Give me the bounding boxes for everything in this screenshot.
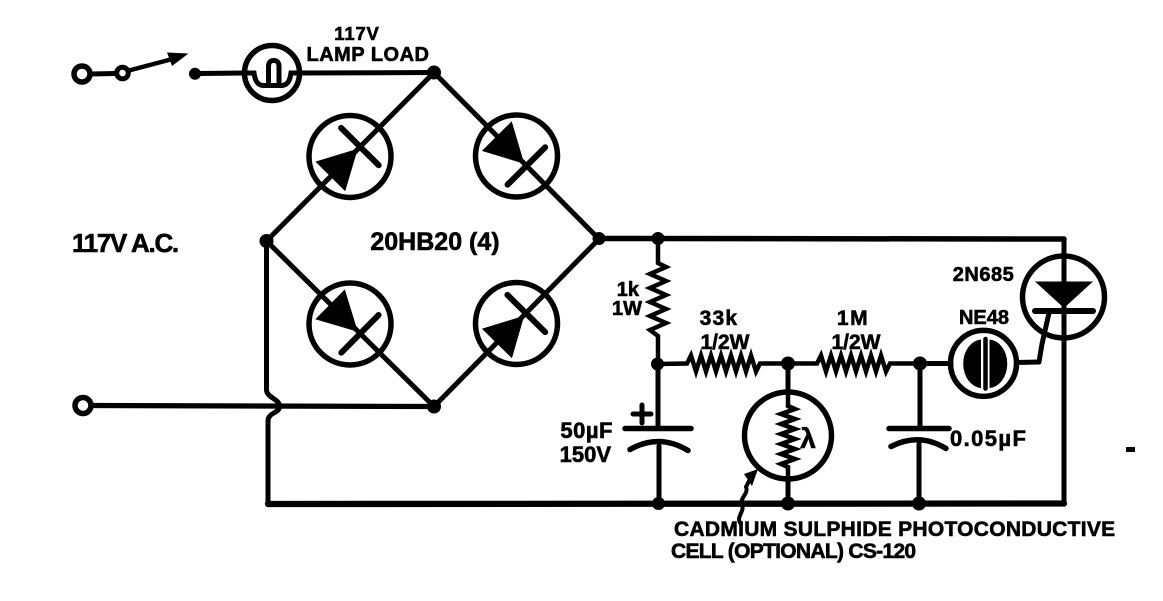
neon lamp electrodes [963,340,1007,389]
node C2 bottom [912,497,926,511]
SCR cathode bar [1035,308,1093,314]
svg-text:20HB20 (4): 20HB20 (4) [370,228,499,256]
svg-text:2N685: 2N685 [953,264,1014,286]
wire left node down with hop over [267,241,280,504]
bridge diagonal wire bottom-left [267,241,435,407]
photocell callout arrow [739,479,750,524]
node left of bridge [260,234,274,248]
wire [199,71,245,77]
svg-text:1W: 1W [612,298,642,320]
bridge diagonal wire top-left [267,73,435,242]
photocell circle [745,392,832,479]
node 1M right [913,357,927,371]
svg-text:CADMIUM SULPHIDE PHOTOCONDUCTI: CADMIUM SULPHIDE PHOTOCONDUCTIVE [674,518,1115,541]
diode D2 (upper-right) circle [476,115,558,197]
SCR triangle [1035,282,1093,309]
capacitor C1 top plate [625,426,691,432]
bridge diagonal wire bottom-right [434,239,599,407]
terminal T2 (lower AC input) [75,398,91,414]
wire C2 to bottom rail [917,444,922,504]
svg-text:50µF: 50µF [560,418,613,443]
svg-text:CELL (OPTIONAL) CS-120: CELL (OPTIONAL) CS-120 [671,540,915,563]
diode D1 (upper-left) circle [309,116,391,198]
switch S1 arm [129,57,180,71]
wire 1M right down to C2 [918,364,923,427]
svg-text:33k: 33k [700,307,739,330]
switch pole contact [117,67,129,79]
node top of bridge [427,66,441,80]
diode D3 cathode bar [341,315,378,353]
SCR Q1 circle [1023,256,1105,338]
wire C1 to bottom rail [657,446,662,504]
photocell callout arrowhead [744,469,758,486]
wire photocell to bottom rail [786,478,791,504]
wire lower AC to bridge bottom [92,406,434,407]
switch throw dot [189,68,201,80]
wire [91,71,115,77]
diode D2 triangle [482,121,524,164]
diode D4 cathode bar [507,295,545,332]
right vertical wire [1062,239,1067,504]
svg-text:NE48: NE48 [959,307,1009,329]
bridge diagonal wire top-right [434,73,599,240]
wire to photocell [786,364,791,395]
svg-text:150V: 150V [560,442,612,467]
node junction 1k top [652,232,665,245]
capacitor C1 curved plate [630,441,688,450]
capacitor C1 50uF plus sign [633,405,651,423]
wire NE48 to gate [1017,360,1040,366]
node 33k right / photocell top [781,357,795,371]
lamp LOAD circle [245,46,300,101]
lamp filament loop [269,61,280,84]
lamp filament cradle [245,73,299,86]
diode D2 cathode bar [508,147,546,184]
wire lamp to bridge top [300,70,434,76]
node bottom of bridge [427,400,441,414]
resistor R2 33k 1/2W [658,356,789,372]
node C1 bottom [652,497,665,510]
resistor R3 1M 1/2W [788,356,920,372]
neon lamp NE48 circle [951,330,1017,396]
svg-text:0.05µF: 0.05µF [950,426,1027,451]
svg-text:1M: 1M [837,307,869,330]
diode D1 triangle [315,149,357,192]
diode D1 cathode bar [341,128,379,165]
capacitor C2 0.05uF top plate [889,426,949,432]
capacitor C2 curved plate [891,440,946,449]
photocell internal resistor [781,394,795,478]
bottom rail wire [268,500,1064,507]
diode D4 triangle [482,316,524,359]
diode D4 (lower-right) circle [476,283,558,365]
node junction 1k bottom / 33k left [651,358,664,371]
stray mark [1126,447,1135,452]
SCR gate lead [1039,313,1049,362]
terminal T1 (upper AC input) [74,66,90,82]
node photocell bottom [781,497,795,511]
diode D3 (lower-left) circle [309,283,391,365]
switch S1 arrowhead [167,53,189,67]
svg-text:117V A.C.: 117V A.C. [72,228,178,258]
svg-text:1/2W: 1/2W [700,331,749,354]
diode D3 triangle [315,289,358,331]
svg-text:λ: λ [800,423,816,454]
svg-text:LAMP LOAD: LAMP LOAD [306,44,429,66]
svg-text:117V: 117V [334,23,379,44]
svg-text:1/2W: 1/2W [831,331,880,354]
wire 1M node to NE48 [920,361,951,366]
resistor R1 1k 1W [650,239,666,365]
top rail wire [599,236,1064,242]
node right of bridge [593,232,606,245]
neon lamp center bar [983,339,988,389]
wire 1k bottom to cap [656,364,661,426]
